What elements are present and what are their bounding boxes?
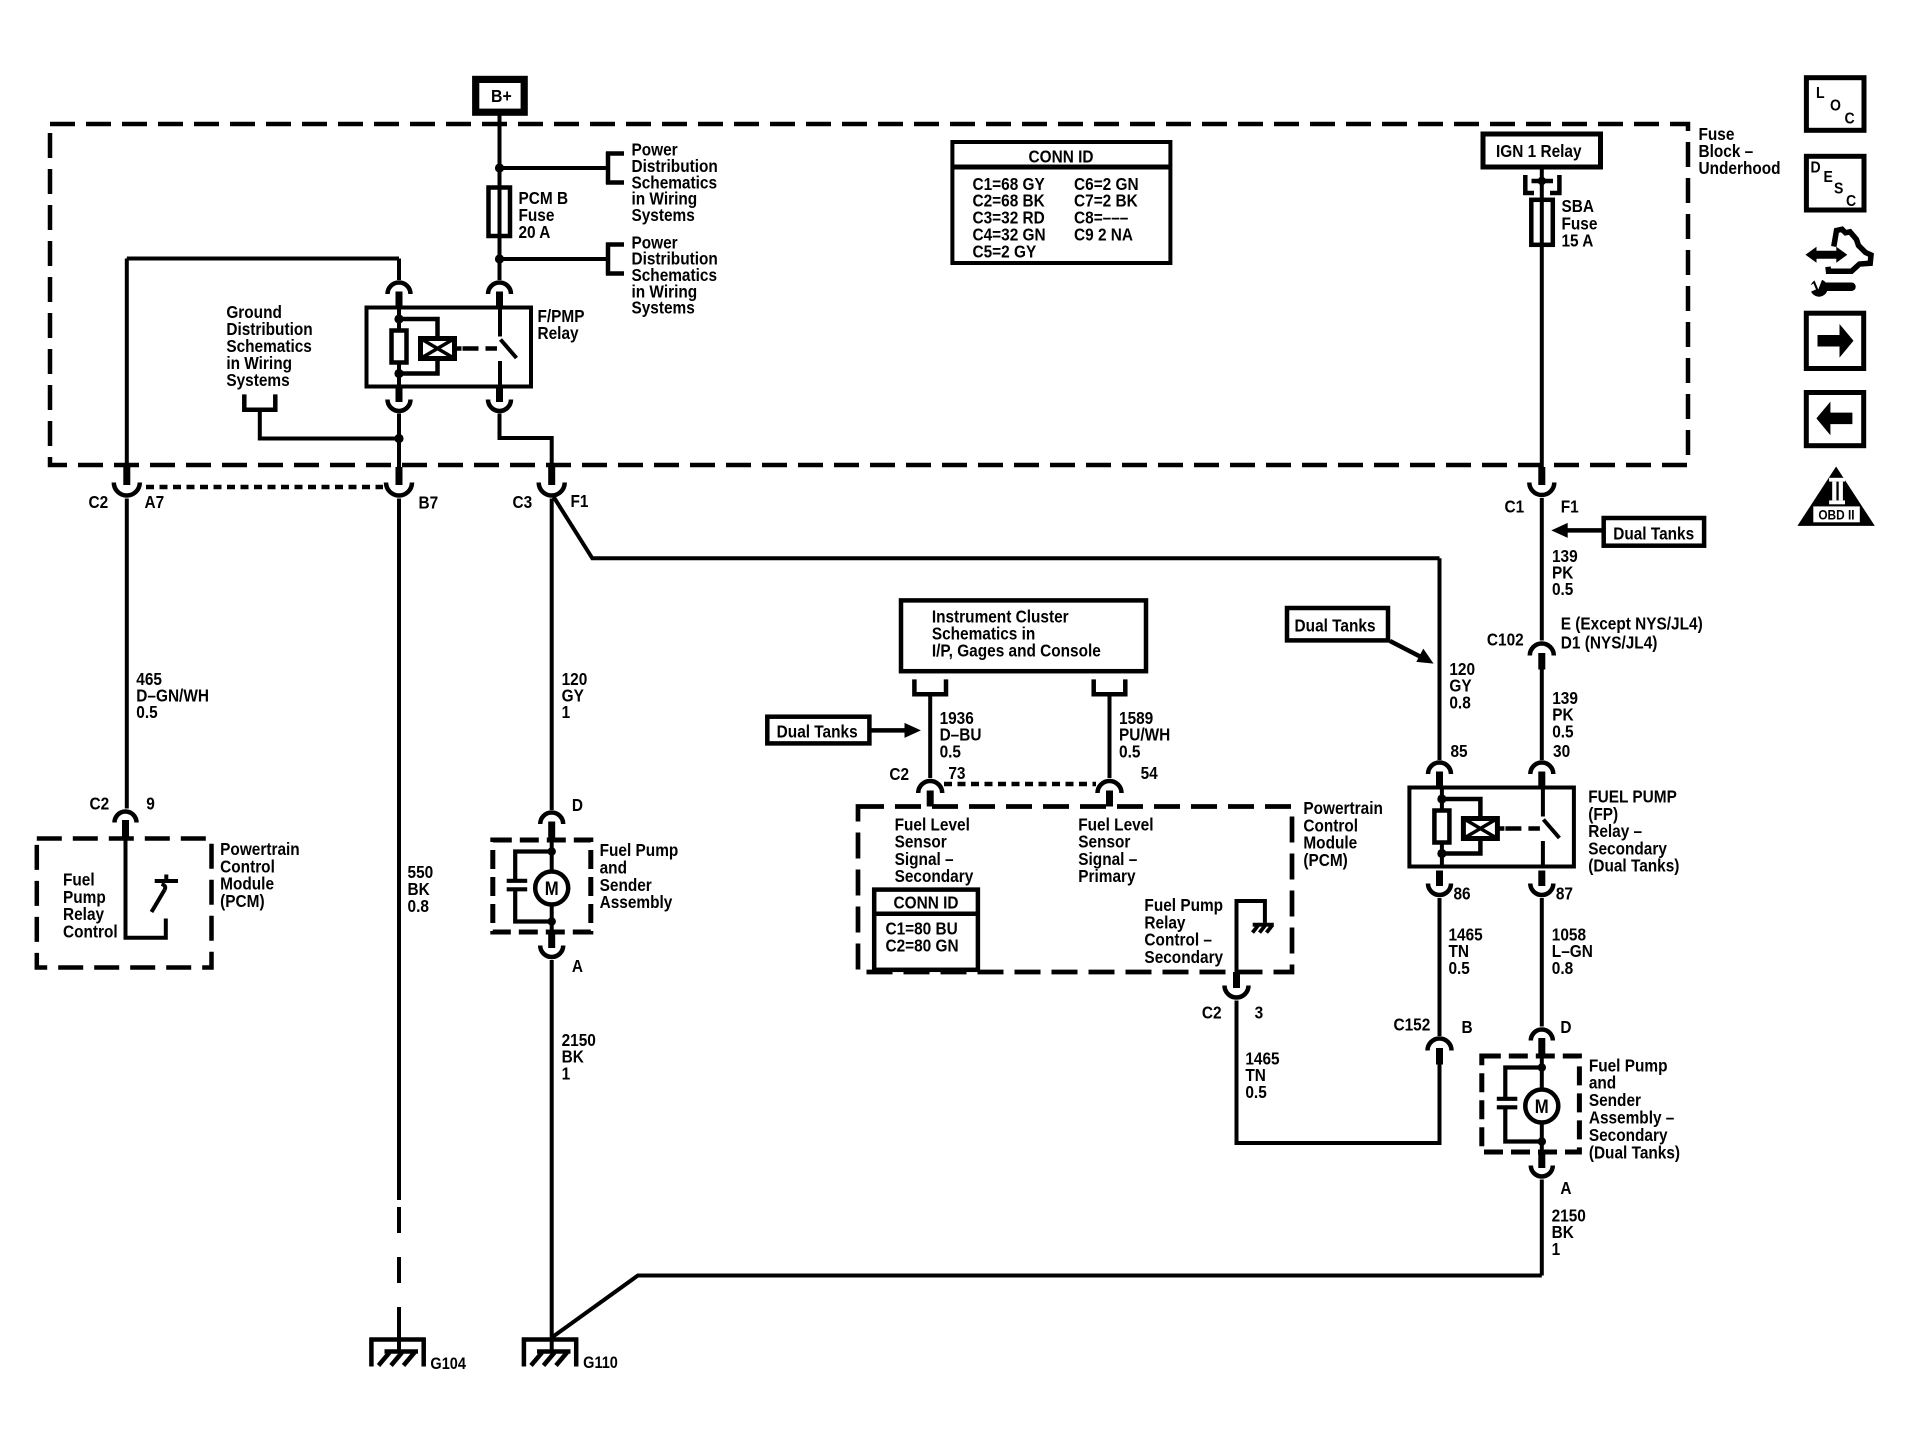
- svg-text:C2: C2: [889, 765, 909, 784]
- svg-text:C2: C2: [1202, 1004, 1222, 1023]
- connector F/PMP relay pin (switch top): [488, 283, 511, 308]
- svg-text:A7: A7: [144, 493, 164, 512]
- offpage connector power distribution 1: [606, 152, 624, 185]
- svg-text:D: D: [572, 796, 583, 815]
- wire 2150 BK secondary: [1540, 1180, 1544, 1276]
- svg-text:C5=2 GY: C5=2 GY: [972, 243, 1036, 262]
- connector C2 pin 3: [1225, 972, 1249, 998]
- wire 550 BK into G104: [397, 1333, 401, 1352]
- icon double arrow: [1806, 247, 1848, 263]
- fuel pump primary motor M: [535, 872, 568, 905]
- svg-text:B+: B+: [491, 86, 512, 106]
- fuel pump secondary motor M: [1525, 1090, 1558, 1123]
- relay FUEL PUMP secondary box: [1409, 788, 1574, 867]
- svg-text:30: 30: [1553, 742, 1570, 761]
- fuel pump secondary capacitor bottom junction: [1538, 1137, 1546, 1145]
- offpage bracket instrument cluster right: [1094, 679, 1126, 694]
- wire 120 GY down to fuel pump: [550, 499, 554, 811]
- relay FUEL PUMP secondary coil feed wire: [1440, 788, 1444, 811]
- svg-text:C2: C2: [89, 493, 109, 512]
- wire 139 PK lower: [1540, 670, 1544, 761]
- fuel pump primary dashed box: [493, 840, 591, 932]
- svg-text:CONN ID: CONN ID: [894, 894, 959, 913]
- dotted PCM connector line 73-54: [944, 782, 1096, 787]
- wire relay coil feed horizontal: [127, 257, 399, 261]
- svg-text:Dual Tanks: Dual Tanks: [1613, 525, 1694, 544]
- wire to power distribution offpage 2: [500, 257, 607, 261]
- wire PCM relay control secondary to ground: [1237, 901, 1265, 972]
- svg-text:C3: C3: [513, 493, 533, 512]
- junction fuse output / power distribution 2: [495, 254, 504, 263]
- relay F/PMP coil bottom junction: [394, 369, 403, 378]
- relay IGN 1 Relay box: [1483, 134, 1601, 167]
- junction ground distribution / 550 BK: [394, 434, 403, 443]
- svg-text:C1: C1: [1505, 498, 1525, 517]
- relay FUEL PUMP secondary actuator dashed link: [1505, 826, 1540, 831]
- connector PCM pin 73: [918, 781, 942, 807]
- connector fuel pump secondary pin D: [1531, 1030, 1553, 1057]
- svg-text:L: L: [1816, 84, 1825, 102]
- wire IGN relay through SBA fuse to C1: [1540, 167, 1544, 467]
- connector PCM pin 54: [1098, 781, 1122, 807]
- Dual Tanks arrow left: [869, 723, 921, 738]
- svg-text:M: M: [545, 878, 559, 899]
- internal ground symbol: [1253, 925, 1274, 933]
- relay F/PMP coil resistor: [392, 331, 407, 363]
- CONN ID table (PCM): [874, 890, 978, 970]
- wire 1589 PU/WH: [1108, 694, 1112, 778]
- relay FUEL PUMP secondary solenoid loop top: [1442, 799, 1481, 819]
- wire PCM internal to switch: [126, 839, 166, 938]
- svg-text:F/PMPRelay: F/PMPRelay: [538, 307, 585, 343]
- PCM fuel pump relay control switch: [152, 875, 179, 913]
- relay FUEL PUMP secondary coil top junction: [1437, 794, 1446, 803]
- IGN terminal junction dot: [1538, 177, 1546, 185]
- IGN 1 relay output terminal: [1523, 175, 1561, 195]
- relay FUEL PUMP secondary coil bottom junction: [1437, 849, 1446, 858]
- offpage bracket ground distribution: [244, 394, 275, 409]
- icon vehicle outline: [1828, 229, 1871, 271]
- icon OBD II triangle: [1797, 467, 1874, 526]
- fuel pump primary motor wires: [550, 840, 554, 932]
- junction B+ / power distribution 1: [495, 163, 504, 172]
- connector FP relay pin 85: [1428, 763, 1451, 788]
- icon forward arrow box: [1806, 313, 1863, 368]
- offpage bracket instrument cluster left: [914, 679, 946, 694]
- fuel pump primary capacitor top junction: [548, 847, 556, 855]
- Dual Tanks arrow middle (diagonal): [1390, 641, 1434, 664]
- connector C3 pin F1: [539, 467, 565, 496]
- Dual Tanks callout box right: [1604, 518, 1704, 546]
- relay FUEL PUMP secondary switch: [1543, 788, 1560, 867]
- icon back arrow box: [1806, 393, 1863, 446]
- battery B+ terminal box: [476, 79, 525, 112]
- svg-text:C102: C102: [1487, 631, 1524, 650]
- connector F/PMP relay pin (coil top): [388, 283, 411, 308]
- fuel pump secondary capacitor: [1497, 1068, 1542, 1142]
- fuse SBA 15A: [1531, 200, 1553, 245]
- connector fuel pump secondary pin A: [1531, 1152, 1553, 1177]
- svg-text:D: D: [1811, 159, 1821, 177]
- wire relay coil bottom down to B7: [397, 414, 401, 470]
- CONN ID table: [952, 142, 1170, 263]
- connector B7: [386, 467, 412, 496]
- svg-text:SBAFuse15 A: SBAFuse15 A: [1561, 197, 1597, 251]
- wire to relay coil top pin: [397, 259, 401, 281]
- svg-text:85: 85: [1451, 742, 1468, 761]
- wire down to C2/A7: [125, 259, 129, 470]
- svg-text:86: 86: [1453, 885, 1470, 904]
- svg-text:M: M: [1535, 1096, 1549, 1117]
- ground G104: [370, 1338, 426, 1367]
- wire B+ to F/PMP relay pin 30 (through PCM B fuse): [498, 112, 502, 280]
- wire 2150 BK to G110: [550, 960, 554, 1352]
- svg-text:G104: G104: [430, 1355, 466, 1373]
- relay F/PMP solenoid X-box: [421, 339, 462, 359]
- connector fuel pump pin A: [540, 932, 563, 957]
- connector C1 pin F1: [1529, 467, 1554, 495]
- relay F/PMP coil bottom wire: [397, 363, 401, 387]
- wire 2150 BK long run to G110: [553, 1276, 1542, 1338]
- wire ground distribution to 550 BK net: [260, 410, 399, 439]
- relay F/PMP coil top junction: [394, 314, 403, 323]
- fuse PCM B 20A: [489, 188, 511, 237]
- svg-text:9: 9: [146, 795, 155, 814]
- connector F/PMP relay pin (switch bottom): [488, 387, 511, 412]
- fuse block underhood dashed border: [50, 124, 1688, 465]
- Dual Tanks arrow right: [1551, 523, 1603, 538]
- svg-text:Dual Tanks: Dual Tanks: [777, 722, 858, 741]
- svg-text:B: B: [1462, 1018, 1473, 1037]
- fuel pump secondary motor wires: [1540, 1056, 1544, 1152]
- Instrument Cluster box: [901, 600, 1146, 671]
- svg-text:C2: C2: [89, 795, 109, 814]
- svg-text:C: C: [1844, 110, 1854, 128]
- dotted PCM connector line: [146, 485, 383, 490]
- PCM center dashed box: [858, 807, 1292, 973]
- connector FP relay pin 87: [1530, 871, 1553, 896]
- relay FUEL PUMP secondary solenoid loop bottom: [1442, 839, 1481, 854]
- PCM left dashed box: [37, 839, 212, 968]
- relay FUEL PUMP secondary coil bottom wire: [1440, 843, 1444, 867]
- wire 1936 D-BU: [928, 694, 932, 778]
- wire 1058 L-GN from pin 87: [1540, 898, 1544, 1027]
- icon wrench: [1806, 275, 1852, 297]
- relay F/PMP coil feed wire: [397, 308, 401, 331]
- wire 120 GY 0.8 down to FP relay pin 85: [1438, 558, 1442, 760]
- svg-text:A: A: [1560, 1179, 1571, 1198]
- wire 1465 TN from pin 3 to C152: [1237, 1001, 1440, 1144]
- connector C2 pin 9: [115, 812, 137, 839]
- connector C152 pin B: [1428, 1039, 1452, 1065]
- connector FP relay pin 30: [1530, 763, 1553, 788]
- connector fuel pump pin D: [540, 813, 563, 841]
- icon DESC box: [1806, 156, 1864, 210]
- svg-text:3: 3: [1255, 1004, 1264, 1023]
- svg-text:IGN 1 Relay: IGN 1 Relay: [1496, 142, 1582, 161]
- wire 550 BK dashed segment to G104: [397, 1207, 401, 1333]
- relay F/PMP actuator dashed link: [463, 346, 498, 351]
- svg-text:F1: F1: [1561, 498, 1579, 517]
- wire 550 BK: [397, 499, 401, 1201]
- svg-text:B7: B7: [419, 494, 439, 513]
- connector FP relay pin 86: [1428, 871, 1451, 896]
- Dual Tanks callout box middle: [1287, 608, 1388, 640]
- svg-text:D: D: [1560, 1018, 1571, 1037]
- offpage connector power distribution 2: [606, 243, 624, 276]
- wire to power distribution offpage 1: [500, 166, 607, 170]
- fuel pump primary capacitor bottom junction: [548, 917, 556, 925]
- svg-text:54: 54: [1141, 764, 1159, 783]
- svg-text:87: 87: [1556, 885, 1573, 904]
- wire 465 D-GN/WH: [125, 499, 129, 809]
- wire 120 GY 0.8 branch to FP relay: [554, 497, 1440, 558]
- svg-text:OBD II: OBD II: [1818, 507, 1854, 523]
- relay FUEL PUMP secondary solenoid X-box: [1463, 819, 1504, 839]
- wire relay switch output to C3/F1: [500, 414, 552, 470]
- fuel pump primary capacitor: [507, 852, 552, 922]
- connector C2 pin A7: [114, 467, 140, 496]
- svg-text:G110: G110: [583, 1354, 618, 1372]
- svg-text:O: O: [1830, 97, 1841, 115]
- svg-text:F1: F1: [571, 492, 589, 511]
- wire 1465 TN from pin 86: [1438, 898, 1442, 1036]
- relay F/PMP solenoid loop bottom: [399, 359, 438, 374]
- Dual Tanks callout box left: [767, 717, 869, 744]
- svg-text:CONN ID: CONN ID: [1029, 148, 1094, 167]
- ground G110: [522, 1338, 578, 1367]
- connector C102: [1530, 644, 1554, 670]
- relay F/PMP switch: [500, 308, 517, 387]
- relay F/PMP solenoid loop top: [399, 319, 438, 339]
- fuel pump secondary dashed box: [1482, 1056, 1580, 1152]
- svg-text:C1=80 BUC2=80 GN: C1=80 BUC2=80 GN: [885, 920, 958, 956]
- svg-text:E: E: [1824, 168, 1833, 186]
- fuel pump secondary capacitor top junction: [1538, 1063, 1546, 1071]
- svg-text:Fuel PumpandSenderAssembly –Se: Fuel PumpandSenderAssembly –Secondary(Du…: [1589, 1056, 1680, 1162]
- icon LOC box: [1806, 78, 1864, 131]
- svg-text:73: 73: [948, 764, 965, 783]
- svg-text:S: S: [1834, 180, 1843, 198]
- svg-text:C152: C152: [1393, 1016, 1430, 1035]
- wire 139 PK upper: [1540, 498, 1544, 641]
- svg-text:C9 2 NA: C9 2 NA: [1074, 226, 1133, 245]
- svg-text:C: C: [1846, 192, 1856, 210]
- relay FUEL PUMP secondary coil resistor: [1434, 811, 1449, 843]
- relay F/PMP box: [367, 308, 532, 387]
- svg-text:Dual Tanks: Dual Tanks: [1295, 617, 1376, 636]
- connector F/PMP relay pin (coil bottom): [388, 387, 411, 412]
- svg-text:A: A: [572, 957, 583, 976]
